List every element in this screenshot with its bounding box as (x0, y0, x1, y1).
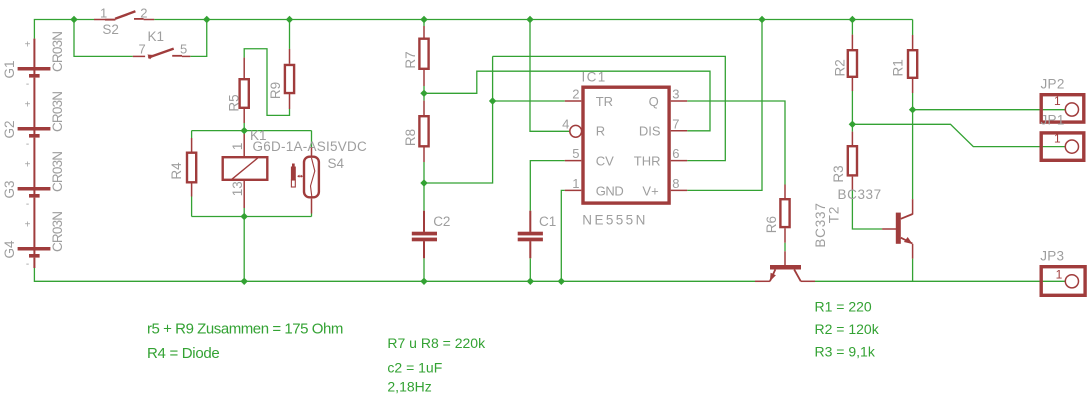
node top rail battery branch (70, 16, 77, 23)
svg-text:R8: R8 (403, 129, 418, 146)
svg-text:3: 3 (672, 87, 679, 102)
svg-text:CR03N: CR03N (50, 32, 65, 72)
svg-text:DIS: DIS (639, 124, 661, 139)
connector JP3 (1040, 249, 1085, 296)
wire R7 top (423, 20, 425, 27)
svg-text:2,18Hz: 2,18Hz (387, 379, 431, 395)
battery G3 (2, 152, 65, 247)
connector JP1 (1041, 112, 1084, 160)
svg-text:CR03N: CR03N (50, 92, 65, 132)
svg-text:IC1: IC1 (582, 70, 607, 85)
wire R7 R8 node to DIS (424, 71, 710, 131)
wire C2 top (423, 183, 425, 211)
svg-text:R9: R9 (268, 82, 283, 99)
node gnd C2 (420, 278, 427, 285)
svg-text:JP2: JP2 (1041, 76, 1065, 91)
svg-text:R2 = 120k: R2 = 120k (815, 321, 880, 337)
svg-text:7: 7 (139, 42, 146, 57)
svg-text:6: 6 (672, 146, 679, 161)
svg-text:R7 u R8 = 220k: R7 u R8 = 220k (387, 335, 486, 351)
svg-text:G3: G3 (2, 180, 17, 198)
svg-text:R: R (596, 124, 605, 139)
wire node Z down to T2 collector (912, 110, 914, 199)
svg-text:r5 + R9 Zusammen = 175 Ohm: r5 + R9 Zusammen = 175 Ohm (147, 321, 343, 338)
node TR (489, 97, 496, 104)
svg-text:R7: R7 (403, 51, 418, 68)
wire R2 top (851, 20, 853, 35)
svg-text:JP3: JP3 (1040, 249, 1064, 264)
node top rail VCC555 (526, 16, 533, 23)
svg-text:1: 1 (572, 176, 579, 191)
svg-text:R3: R3 (831, 165, 846, 182)
svg-text:+: + (25, 159, 31, 170)
wire node Z to JP2 (913, 109, 1066, 111)
svg-text:13: 13 (230, 181, 245, 196)
resistor R9 (268, 49, 294, 109)
svg-text:1: 1 (1056, 268, 1063, 282)
svg-text:R5: R5 (227, 94, 242, 111)
svg-text:TR: TR (596, 94, 613, 109)
svg-text:CV: CV (596, 154, 614, 169)
wire V+ pin8 to rail (687, 20, 762, 191)
wire R1 top (912, 20, 914, 36)
svg-text:C1: C1 (539, 214, 556, 229)
svg-text:7: 7 (672, 116, 679, 131)
wire S2 parallel branch (74, 20, 133, 57)
wire GND pin1 down (561, 190, 565, 281)
wire R3 top (851, 124, 853, 131)
svg-text:5: 5 (180, 42, 187, 57)
capacitor C1 (518, 211, 557, 259)
svg-text:R1: R1 (890, 59, 905, 76)
svg-text:S2: S2 (102, 22, 119, 37)
wire relay bottom node horizontal (192, 216, 312, 218)
svg-text:1: 1 (1054, 131, 1061, 145)
wire R7 bottom to node (423, 86, 425, 93)
svg-text:1: 1 (100, 6, 107, 21)
node gnd relay (241, 278, 248, 285)
svg-text:G6D-1A-ASI5VDC: G6D-1A-ASI5VDC (253, 139, 368, 154)
svg-text:4: 4 (562, 116, 569, 131)
resistor R7 (403, 26, 429, 86)
svg-text:V+: V+ (642, 183, 658, 198)
wire R2 bottom to node (851, 91, 853, 124)
node top rail R9 (286, 16, 293, 23)
svg-text:BC337: BC337 (838, 187, 882, 202)
svg-text:-: - (26, 79, 29, 90)
svg-text:G1: G1 (2, 60, 17, 78)
svg-text:5: 5 (572, 146, 579, 161)
svg-text:-: - (26, 139, 29, 150)
node R7 R8 (420, 90, 427, 97)
wire R8 top (423, 93, 425, 100)
resistor R5 (227, 58, 249, 123)
svg-text:GND: GND (596, 183, 624, 198)
wire R1 bottom node Z (912, 93, 914, 110)
node relay coil bottom (241, 213, 248, 220)
wire TR node horizontal (424, 56, 493, 183)
resistor R6 (764, 185, 790, 243)
wire node R2R3 to JP1 (852, 124, 1065, 146)
node top rail S2 K1 (203, 16, 210, 23)
switch S2 (94, 6, 154, 38)
wire node K1 horizontal (192, 130, 312, 132)
wire K1 pin5 to rail (190, 20, 206, 57)
wire top VCC rail left (34, 20, 94, 39)
svg-text:NE555N: NE555N (582, 213, 647, 228)
svg-text:C2: C2 (433, 214, 450, 229)
node R1 T2 (909, 106, 916, 113)
svg-text:-: - (26, 259, 29, 270)
wire R9 top (289, 20, 291, 49)
wire top VCC rail main (154, 19, 912, 21)
svg-text:G4: G4 (2, 240, 17, 259)
svg-text:-: - (26, 199, 29, 210)
svg-text:1: 1 (230, 143, 245, 151)
wire R3 bottom to T2 base (852, 190, 882, 229)
svg-text:2: 2 (572, 87, 579, 102)
capacitor C2 (412, 211, 451, 259)
wire R6 bottom link (784, 243, 786, 252)
wire R4 bottom (191, 197, 193, 217)
wire C2 bottom (423, 258, 425, 281)
wire R9 bottom to R5 top jog (244, 49, 289, 116)
svg-text:CR03N: CR03N (50, 152, 65, 192)
node top rail R2 (849, 16, 856, 23)
svg-text:K1: K1 (148, 29, 165, 44)
transistor T2 (838, 187, 913, 259)
wire relay node down to gnd rail (243, 217, 245, 282)
svg-text:1: 1 (1054, 94, 1061, 108)
svg-text:T2: T2 (827, 206, 842, 223)
svg-text:+: + (25, 99, 31, 110)
resistor R8 (403, 101, 429, 162)
svg-text:+: + (25, 219, 31, 230)
svg-text:G2: G2 (2, 120, 17, 138)
node junction dots (70, 16, 916, 285)
svg-text:R4 = Diode: R4 = Diode (147, 345, 219, 362)
battery G4 (2, 212, 65, 270)
svg-text:JP1: JP1 (1041, 112, 1065, 127)
switch S4 (291, 148, 345, 214)
svg-text:8: 8 (672, 176, 679, 191)
svg-text:THR: THR (634, 154, 661, 169)
resistor R4 (169, 138, 196, 197)
wire VCC to pin4 reset (530, 20, 570, 132)
svg-text:R4: R4 (169, 162, 184, 180)
svg-text:R2: R2 (833, 59, 848, 76)
wire Q pin3 to R6 (687, 101, 785, 185)
node R2 R3 (849, 121, 856, 128)
op-amp timer IC1 NE555N (562, 70, 687, 228)
battery G2 (2, 92, 65, 187)
relay coil K1 (223, 128, 367, 217)
resistor R1 (890, 35, 917, 93)
resistor R3 (831, 132, 857, 191)
wire S4 top (311, 131, 313, 148)
wire R8 bottom (423, 162, 425, 183)
svg-text:c2 = 1uF: c2 = 1uF (387, 359, 442, 375)
battery G1 (2, 32, 65, 127)
wire R5 bottom to node K1 (243, 123, 245, 131)
transistor T1 (755, 202, 842, 281)
svg-text:Q: Q (649, 94, 659, 109)
node top rail Vplus (758, 16, 765, 23)
connector JP2 (1041, 76, 1084, 122)
wire CV to C1 (530, 161, 565, 211)
svg-text:R3 = 9,1k: R3 = 9,1k (815, 343, 876, 359)
wire C1 bottom (529, 258, 531, 281)
wire TR node to pin2 (493, 100, 565, 102)
wire gnd bottom rail left (34, 268, 755, 281)
svg-text:R6: R6 (764, 216, 779, 233)
svg-text:S4: S4 (328, 156, 345, 171)
node gnd 555 (558, 278, 565, 285)
node R8 bottom (420, 179, 427, 186)
node relay coil top (241, 127, 248, 134)
svg-text:R1 = 220: R1 = 220 (815, 299, 872, 315)
resistor R2 (833, 35, 857, 91)
svg-text:CR03N: CR03N (50, 212, 65, 252)
node gnd C1 (527, 278, 534, 285)
wire gnd bottom rail right (815, 280, 1066, 282)
relay contact K1 (133, 29, 191, 60)
svg-text:+: + (25, 39, 31, 50)
wire R4 top (191, 131, 193, 138)
node top rail R7 (420, 16, 427, 23)
wire S4 bottom (311, 214, 313, 217)
svg-text:2: 2 (140, 6, 147, 21)
wire T2 emitter to gnd rail (912, 259, 914, 282)
wire TR to THR top run (493, 56, 726, 160)
